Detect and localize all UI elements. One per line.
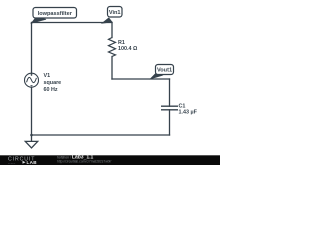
resistor R1 [109,38,116,57]
junction ground node [30,134,33,137]
capacitor C1 [161,106,178,110]
wire left vertical lower [31,87,33,135]
svg-text:100.4 Ω: 100.4 Ω [118,46,138,52]
svg-text:60 Hz: 60 Hz [44,87,58,93]
footer text line1 [57,154,111,163]
wire right vertical upper [169,79,171,106]
svg-text:square: square [44,80,62,86]
svg-text:LAB: LAB [27,160,38,165]
wire vin vertical [111,23,113,38]
resistor R1 labels [118,40,138,52]
svg-text:Vout1: Vout1 [157,68,172,74]
ground [25,135,37,148]
wire mid horizontal [112,78,170,80]
svg-text:Vin1: Vin1 [109,10,121,16]
svg-text:1.43 µF: 1.43 µF [179,109,198,115]
V1 labels [44,73,62,93]
flag Vout1 [151,65,174,79]
wire right vertical lower [169,110,171,135]
footer bar [0,155,220,165]
svg-text:http://circuitlab.com/c/7mat28: http://circuitlab.com/c/7mat282s7wbf/ [57,159,111,163]
flag Vin1 [102,7,122,24]
capacitor C1 labels [179,104,198,116]
wire left vertical upper [31,23,33,74]
flag lowpassfilter [31,8,76,24]
wire top horizontal [32,22,113,24]
svg-text:lowpassfilter: lowpassfilter [38,11,73,17]
wire bottom horizontal [32,134,170,136]
footer logo CIRCUIT LAB [8,156,37,165]
svg-text:V1: V1 [44,73,51,79]
voltage source V1 [25,73,39,87]
wire below resistor [111,57,113,80]
svg-text:−∼−: −∼− [8,161,16,165]
